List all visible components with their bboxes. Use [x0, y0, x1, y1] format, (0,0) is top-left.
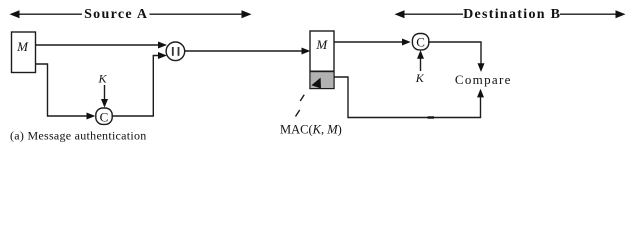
MAC function C destination	[412, 34, 428, 50]
svg-text:(a) Message authentication: (a) Message authentication	[10, 129, 147, 143]
concat node	[166, 42, 185, 61]
svg-text:Destination B: Destination B	[463, 7, 561, 22]
svg-text:K: K	[97, 72, 107, 86]
dashed pointer to MAC field	[296, 95, 305, 117]
wire C destination to compare	[429, 42, 485, 72]
wire K to C source	[101, 85, 108, 108]
svg-text:C: C	[100, 109, 109, 124]
block M received message	[310, 31, 334, 89]
svg-text:C: C	[416, 35, 425, 50]
svg-text:M: M	[315, 37, 328, 52]
svg-text:MAC(K, M): MAC(K, M)	[280, 123, 342, 137]
wire C source output to concat	[112, 52, 167, 116]
svg-text:M: M	[16, 39, 29, 54]
svg-text:Compare: Compare	[455, 72, 512, 87]
wire M down to C source	[36, 64, 96, 120]
block M source message	[12, 32, 36, 73]
wire M to concat top	[36, 42, 168, 49]
svg-text:Source A: Source A	[84, 7, 148, 22]
wire MAC field to compare	[334, 77, 484, 118]
wire concat to received message	[185, 48, 310, 55]
header arrow Destination B	[395, 10, 626, 18]
MAC field shaded	[310, 71, 334, 88]
junction mark on compare wire	[428, 116, 435, 118]
wire received M to C destination	[334, 39, 411, 46]
wire K to C destination	[417, 50, 424, 71]
arrowhead into MAC field	[311, 78, 321, 89]
header arrow Source A	[10, 10, 252, 18]
MAC function C source	[96, 108, 112, 124]
svg-text:K: K	[415, 71, 425, 85]
